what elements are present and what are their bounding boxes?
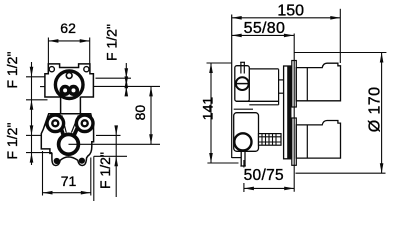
handle bottom joint line xyxy=(306,125,308,158)
dim 50/75 arrow left xyxy=(244,187,254,191)
inlet port left inner xyxy=(52,120,58,126)
dim 50/75 arrow right xyxy=(284,187,294,191)
pipe bottom edge xyxy=(236,100,278,102)
handle top profile xyxy=(296,63,340,101)
foot pin left xyxy=(54,158,60,164)
thread F1/2 lower-left arrow up xyxy=(30,153,34,163)
dim 50/75 extension left upper xyxy=(243,160,245,168)
thread F1/2 bottom-right dim line xyxy=(115,128,117,197)
pipe neck top xyxy=(279,79,284,81)
dim 62 extension right xyxy=(89,38,91,64)
foot pin right xyxy=(79,158,85,164)
dim dia170 leader bottom xyxy=(296,172,386,174)
wall plate side view xyxy=(284,66,291,159)
thread F1/2 lower-left arrow down xyxy=(30,125,34,135)
dim 50/75 extension left lower xyxy=(243,183,245,192)
dim 141 leader top xyxy=(207,62,232,64)
drain tail cap xyxy=(240,165,245,167)
dim 150 extension right xyxy=(339,9,341,63)
outlet stub hatch 2 xyxy=(265,134,267,146)
dim 55/80 arrow right xyxy=(284,34,294,38)
thread F1/2 top-right arrow down-inner xyxy=(125,76,129,86)
dim 71 extension left xyxy=(42,151,44,196)
dim 80 arrow up xyxy=(149,86,153,96)
drain tail right xyxy=(244,150,246,166)
svg-text:50/75: 50/75 xyxy=(244,167,284,184)
dim 150 arrow right xyxy=(330,16,340,20)
cartridge port top xyxy=(66,73,72,79)
body corner drop line xyxy=(93,156,95,201)
inlet port right outer xyxy=(76,115,93,132)
dim 71 extension right xyxy=(90,158,92,196)
thread F1/2 upper-left leader bottom xyxy=(26,99,48,101)
thread F1/2 top-right arrow down-outer xyxy=(125,68,129,78)
dim 80 leader top xyxy=(94,85,160,87)
dim dia170 arrow down xyxy=(380,163,384,173)
svg-text:141: 141 xyxy=(200,97,216,121)
spindle stub cap xyxy=(240,61,245,63)
inlet port left outer xyxy=(47,115,64,132)
dim 62 arrow left xyxy=(48,39,58,43)
cartridge port bottom-right xyxy=(70,87,78,95)
thread F1/2 upper-left arrow down xyxy=(30,67,34,77)
dim 55/80 line xyxy=(232,34,294,36)
side view body back edge and 150 extension left xyxy=(231,15,233,159)
dim dia170 line xyxy=(381,53,383,174)
handle bottom profile xyxy=(296,121,340,159)
pipe top edge xyxy=(249,68,278,70)
dim 62 line xyxy=(48,40,89,42)
dim 80 line xyxy=(150,86,152,144)
dim 150 line xyxy=(232,17,341,19)
neck front view xyxy=(61,96,81,114)
dim 141 arrow up xyxy=(209,63,213,73)
flange line xyxy=(234,108,253,110)
pipe neck bottom xyxy=(279,92,284,94)
svg-text:Ø 170: Ø 170 xyxy=(367,87,384,133)
outlet circle center xyxy=(59,134,79,154)
top screw slot xyxy=(235,83,249,85)
svg-text:80: 80 xyxy=(132,105,148,121)
funnel line inner-left xyxy=(62,115,67,132)
thread F1/2 top-right dim line xyxy=(125,63,127,92)
svg-text:F 1/2": F 1/2" xyxy=(104,24,120,61)
side view upper block xyxy=(235,66,250,102)
dim 141 line xyxy=(210,63,212,163)
svg-text:55/80: 55/80 xyxy=(244,20,286,37)
spindle stub right line xyxy=(243,62,245,73)
drain tail left xyxy=(240,150,242,166)
dim 62 extension left xyxy=(47,38,49,64)
dim dia170 leader top xyxy=(294,52,386,54)
thread F1/2 upper-left dim line xyxy=(31,62,33,165)
thread F1/2 bottom-right arrow down xyxy=(114,125,118,135)
wire neck right edge xyxy=(79,97,81,114)
thread F1/2 top-right arrow up-inner xyxy=(125,78,129,88)
valve body front view outline xyxy=(41,114,93,166)
thread F1/2 top-right leader xyxy=(96,77,132,79)
funnel line inner-right xyxy=(71,115,78,132)
outlet stub inner top xyxy=(259,136,282,138)
pipe end cap xyxy=(278,69,280,105)
thread F1/2 upper-left arrow up xyxy=(30,100,34,110)
wire neck left edge xyxy=(60,97,62,114)
valve bracket front view outline xyxy=(45,64,94,97)
side view lower block xyxy=(234,113,259,152)
dim 62 arrow right xyxy=(80,39,90,43)
dim 71 arrow right xyxy=(81,191,91,195)
outlet stub rect xyxy=(259,134,282,146)
spindle stub left line xyxy=(240,62,242,73)
outlet stub inner bottom xyxy=(259,141,282,143)
ear screw hole left xyxy=(49,67,54,72)
thread F1/2 upper-left leader top xyxy=(26,76,45,78)
svg-text:150: 150 xyxy=(277,2,304,19)
body back bottom edge xyxy=(232,157,242,159)
dim 55/80 arrow left xyxy=(232,34,242,38)
thread F1/2 bottom-right leader top xyxy=(96,134,121,136)
dim dia170 arrow up xyxy=(380,53,384,63)
dim 150 arrow left xyxy=(232,16,242,20)
thread F1/2 lower-left leader bottom xyxy=(26,152,52,154)
funnel line outer-right xyxy=(73,117,82,137)
dim 71 line xyxy=(43,192,91,194)
outlet stub hatch 1 xyxy=(261,134,263,146)
dim 50/75 line xyxy=(244,187,294,189)
svg-text:F 1/2": F 1/2" xyxy=(97,152,113,189)
top screw circle xyxy=(236,77,249,90)
hub collar top xyxy=(292,61,297,108)
funnel line outer-left xyxy=(57,117,63,137)
dim 80 leader bottom xyxy=(69,143,161,145)
svg-text:71: 71 xyxy=(61,173,77,189)
outlet stub hatch 4 xyxy=(272,134,274,146)
outlet stub hatch 3 xyxy=(268,134,270,146)
wall plate dark face xyxy=(287,66,291,159)
pipe inner edge xyxy=(249,104,278,106)
svg-text:F 1/2": F 1/2" xyxy=(4,52,20,89)
cartridge port bottom-left xyxy=(61,87,69,95)
cartridge circle xyxy=(55,71,83,99)
handle top joint line xyxy=(306,68,308,101)
hub collar bottom xyxy=(292,118,297,165)
svg-text:62: 62 xyxy=(60,20,76,36)
thread F1/2 bottom-right leader bottom xyxy=(94,155,127,157)
dim 141 arrow down xyxy=(209,153,213,163)
outlet stub hatch 5 xyxy=(275,134,277,146)
dim 141 leader bottom xyxy=(207,162,238,164)
bottom screw circle xyxy=(234,133,251,150)
thread F1/2 lower-left leader top xyxy=(26,134,41,136)
long extension line 55/80 and 50/75 right xyxy=(293,34,295,192)
thread F1/2 bottom-right arrow up xyxy=(114,156,118,166)
ear screw hole right xyxy=(84,67,89,72)
dim 71 arrow left xyxy=(43,191,53,195)
inlet port right inner xyxy=(82,120,88,126)
dim 80 arrow down xyxy=(149,134,153,144)
svg-text:F 1/2": F 1/2" xyxy=(4,123,20,160)
leader left at circle centre level xyxy=(40,86,45,88)
thread F1/2 top-right arrow up-outer xyxy=(125,86,129,96)
